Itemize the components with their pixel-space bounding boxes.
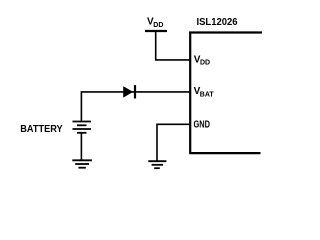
- diode D1: [123, 85, 135, 98]
- svg-text:DD: DD: [153, 22, 163, 29]
- value label ISL12026: [197, 17, 238, 28]
- svg-text:DD: DD: [200, 60, 210, 67]
- pin VDD label: [194, 54, 210, 66]
- wire battery to VBAT pin: [81, 92, 190, 122]
- wire VDD supply to VDD pin: [156, 31, 190, 60]
- label BATTERY: [20, 124, 63, 135]
- wire GND pin to ground: [157, 124, 190, 161]
- svg-text:ISL12026: ISL12026: [197, 17, 238, 28]
- pin GND label: [194, 120, 211, 131]
- battery BT1: [73, 122, 92, 133]
- ground (battery): [72, 160, 92, 167]
- wire battery to ground: [80, 133, 82, 160]
- svg-text:GND: GND: [194, 120, 211, 131]
- svg-text:BATTERY: BATTERY: [20, 124, 63, 135]
- ground (IC GND): [148, 161, 166, 168]
- power supply VDD: [145, 17, 167, 32]
- svg-text:BAT: BAT: [200, 91, 215, 98]
- IC U1 ISL12026 outline: [190, 33, 262, 154]
- pin VBAT label: [194, 86, 215, 98]
